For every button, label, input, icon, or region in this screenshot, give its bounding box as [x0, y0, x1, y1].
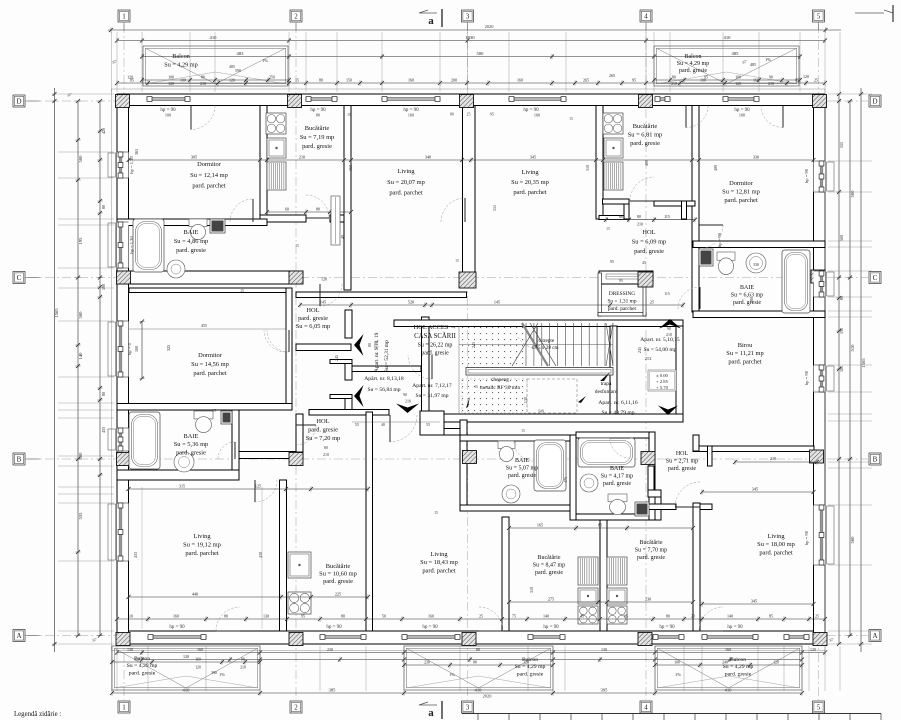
- axis A: [28, 635, 868, 637]
- svg-text:120: 120: [183, 654, 189, 659]
- dim interior dormitor mid-left: [129, 328, 286, 330]
- dim bottom main line: [110, 690, 804, 695]
- svg-text:400: 400: [644, 160, 649, 166]
- wall living-bm/bucatarie: [502, 517, 509, 631]
- svg-text:Su = 19,12 mp: Su = 19,12 mp: [183, 541, 221, 548]
- window top 2: [306, 97, 337, 102]
- svg-text:85: 85: [769, 613, 773, 618]
- svg-text:40: 40: [340, 235, 345, 239]
- dim hol top-right: [604, 217, 697, 222]
- svg-text:pard. parchet: pard. parchet: [192, 183, 226, 190]
- svg-text:pard. parchet: pard. parchet: [193, 370, 227, 377]
- wall hol br step a: [648, 490, 661, 497]
- dim top line3: [140, 54, 802, 59]
- label balcon bottom-right: [723, 657, 754, 677]
- axis C: [28, 277, 868, 279]
- label living bottom-right: [757, 533, 795, 556]
- grid bubble B left: [13, 453, 25, 465]
- svg-text:17,5 x 28 cm: 17,5 x 28 cm: [531, 345, 558, 351]
- window left 4: [108, 503, 129, 561]
- svg-text:chepeng: chepeng: [491, 377, 509, 383]
- svg-text:120: 120: [839, 366, 844, 372]
- svg-text:330: 330: [753, 154, 759, 159]
- dim left line3: [97, 99, 102, 638]
- column bottom x296: [289, 633, 303, 646]
- svg-text:40: 40: [381, 422, 385, 427]
- svg-text:120: 120: [321, 277, 327, 282]
- svg-text:pard. gresie: pard. gresie: [508, 473, 536, 479]
- svg-text:1%: 1%: [765, 57, 771, 62]
- column row C x818: [811, 270, 825, 283]
- column top x819.5: [813, 95, 827, 108]
- extension lines bottom: [112, 646, 841, 691]
- svg-text:Su = 43,79 mp: Su = 43,79 mp: [602, 410, 635, 416]
- svg-text:Su = 4,29 mp: Su = 4,29 mp: [677, 61, 709, 67]
- svg-text:325: 325: [166, 345, 171, 351]
- column bottom x820: [813, 633, 827, 646]
- label balcon top-right: [677, 54, 709, 74]
- wall living/bucatarie bottom-left: [280, 480, 287, 631]
- axis B: [28, 458, 868, 460]
- svg-text:Living: Living: [430, 551, 448, 558]
- svg-text:500: 500: [78, 452, 83, 460]
- living bl extension lines: [142, 487, 262, 629]
- svg-text:433: 433: [133, 552, 138, 558]
- svg-text:Apart. nr. 7,12,17: Apart. nr. 7,12,17: [412, 383, 452, 389]
- grid bubble C left: [13, 272, 25, 284]
- svg-text:25: 25: [467, 113, 471, 117]
- wall stub hol apart8 b: [330, 395, 352, 399]
- window bottom 3: [402, 635, 460, 640]
- svg-text:125: 125: [255, 483, 261, 488]
- svg-text:60: 60: [619, 214, 623, 219]
- door balcony top-right a: [686, 106, 708, 128]
- wall stair shaft bottom: [443, 414, 683, 422]
- 32 deg labels: [66, 59, 835, 643]
- grid bubble 4 top: [640, 10, 652, 22]
- dim left overall: [52, 88, 57, 652]
- svg-text:120: 120: [127, 75, 133, 79]
- svg-text:230: 230: [645, 596, 651, 601]
- dim living br 210: [733, 459, 819, 464]
- label dormitor top-right: [722, 180, 760, 204]
- door baie bm1: [514, 441, 534, 461]
- svg-text:pard. gresie: pard. gresie: [725, 671, 752, 677]
- svg-text:D: D: [872, 98, 877, 106]
- svg-text:410: 410: [725, 687, 733, 692]
- toilet baie upper-left: [189, 219, 207, 240]
- label living bottom-middle: [420, 551, 458, 574]
- wall baie mid-left bottom: [117, 470, 239, 480]
- svg-text:115: 115: [664, 214, 670, 219]
- svg-text:95: 95: [610, 259, 614, 264]
- wall row C left: [117, 271, 303, 284]
- svg-text:+ 2.85: + 2.85: [656, 379, 668, 384]
- wall hol top-right step: [682, 201, 687, 219]
- svg-text:100: 100: [739, 113, 745, 118]
- svg-text:80: 80: [316, 113, 320, 118]
- window bottom 1: [148, 635, 206, 640]
- svg-text:1: 1: [122, 704, 126, 712]
- svg-text:500: 500: [839, 235, 844, 241]
- svg-text:Living: Living: [767, 533, 785, 540]
- svg-text:80: 80: [324, 445, 328, 450]
- window top 4: [509, 97, 566, 102]
- exterior wall bottom: [117, 631, 825, 644]
- column top x466.5: [460, 95, 474, 108]
- axis 2: [295, 24, 297, 700]
- svg-text:80: 80: [473, 660, 477, 664]
- svg-text:Su = 6,05 mp: Su = 6,05 mp: [296, 323, 331, 330]
- svg-text:430: 430: [258, 552, 263, 558]
- label apart 8,13,18: [364, 376, 404, 393]
- svg-text:210: 210: [405, 399, 411, 404]
- svg-text:500: 500: [850, 190, 855, 198]
- svg-text:BAIE: BAIE: [610, 466, 624, 472]
- svg-text:80: 80: [341, 613, 345, 618]
- svg-text:pard. gresie: pard. gresie: [308, 426, 338, 433]
- svg-text:Su = 10,60 mp: Su = 10,60 mp: [319, 571, 357, 578]
- svg-text:Apart. nr. 9,14, 19: Apart. nr. 9,14, 19: [374, 332, 380, 372]
- boiler baie upper-left: [210, 219, 225, 233]
- toilet baie mid-left: [194, 411, 213, 433]
- svg-text:HOL ACCES →: HOL ACCES →: [414, 324, 457, 331]
- svg-text:80: 80: [101, 392, 106, 396]
- svg-text:225: 225: [335, 591, 341, 596]
- grid bubble C right: [869, 272, 881, 284]
- svg-text:80: 80: [450, 113, 454, 117]
- svg-text:pard. parchet: pard. parchet: [608, 306, 637, 312]
- svg-text:Bucătărie: Bucătărie: [305, 125, 330, 132]
- wall hol br step b: [655, 497, 661, 520]
- dim bottom detail chain: [115, 616, 827, 621]
- wall apart right of stairs: [676, 326, 683, 422]
- wall row C right (to column): [599, 271, 653, 284]
- exterior wall top: [117, 94, 825, 106]
- svg-text:95: 95: [301, 613, 305, 618]
- column row B x648: [641, 452, 655, 465]
- section marker a top: [419, 9, 442, 27]
- label baie bm2: [601, 466, 633, 487]
- svg-text:15: 15: [606, 227, 610, 231]
- svg-text:± 0.00: ± 0.00: [656, 373, 668, 378]
- label balcon bottom-left: [127, 656, 158, 676]
- wall baie bm1 top: [460, 435, 570, 441]
- svg-text:45: 45: [642, 260, 646, 265]
- svg-text:pard. parchet: pard. parchet: [759, 549, 793, 556]
- svg-text:100: 100: [674, 660, 680, 664]
- svg-text:160: 160: [101, 284, 106, 290]
- svg-text:pard. gresie: pard. gresie: [535, 570, 563, 576]
- svg-text:pard. parchet: pard. parchet: [185, 550, 219, 557]
- svg-text:275: 275: [548, 596, 554, 601]
- svg-text:210: 210: [373, 342, 378, 348]
- label living top-mid-right: [511, 169, 549, 196]
- svg-text:Dormitor: Dormitor: [197, 161, 222, 168]
- svg-text:130: 130: [601, 647, 607, 652]
- svg-text:25: 25: [814, 77, 818, 82]
- stove kitchen bm1: [578, 606, 598, 624]
- label hol mid-left: [296, 307, 331, 330]
- svg-text:Su = 31,97 mp: Su = 31,97 mp: [416, 393, 449, 399]
- svg-text:120: 120: [195, 666, 201, 670]
- label bucatarie bottom-left: [319, 563, 357, 585]
- extension lines top: [112, 32, 841, 92]
- svg-text:pard. gresie: pard. gresie: [634, 248, 664, 255]
- label bucatarie top-right: [628, 123, 663, 147]
- column row B x296: [289, 453, 303, 466]
- door living bottom-left: [255, 480, 277, 502]
- svg-text:Su = 4,86 mp: Su = 4,86 mp: [174, 238, 209, 245]
- svg-text:500: 500: [78, 311, 83, 319]
- svg-text:485: 485: [732, 51, 740, 56]
- svg-text:Su = 56,84 mp: Su = 56,84 mp: [368, 387, 401, 393]
- svg-text:120: 120: [803, 74, 809, 79]
- svg-text:Su = 20,35 mp: Su = 20,35 mp: [511, 179, 549, 186]
- wall hol br left: [648, 466, 654, 492]
- svg-text:25: 25: [815, 613, 819, 618]
- svg-text:80: 80: [476, 647, 480, 652]
- svg-text:Su = 11,21 mp: Su = 11,21 mp: [726, 350, 763, 357]
- wall dormitor mid-left top: [129, 288, 292, 293]
- svg-text:230: 230: [424, 660, 430, 664]
- svg-text:180: 180: [749, 297, 754, 303]
- svg-text:pard. gresie: pard. gresie: [421, 351, 449, 357]
- roof overhang outline: [112, 89, 826, 651]
- wall hol br right upper: [693, 435, 699, 451]
- wall stair shaft top: [394, 320, 683, 327]
- label baie mid-left: [174, 433, 209, 456]
- labels baie top-right dims: [610, 259, 670, 296]
- stove kitchen top-right: [603, 113, 623, 134]
- window bottom 4: [528, 635, 565, 640]
- svg-text:160: 160: [408, 77, 414, 82]
- axis 5: [818, 24, 820, 700]
- svg-text:520: 520: [408, 299, 414, 304]
- sink kitchen bm2: [607, 588, 627, 604]
- svg-text:4: 4: [644, 13, 648, 21]
- window bottom 5: [653, 635, 684, 640]
- svg-text:55: 55: [426, 422, 430, 427]
- grid bubble 3 top: [462, 10, 474, 22]
- svg-text:pard. parchet: pard. parchet: [389, 190, 423, 197]
- svg-text:2020: 2020: [485, 24, 495, 29]
- svg-text:210: 210: [637, 222, 643, 227]
- svg-text:Living: Living: [193, 533, 211, 540]
- svg-text:310: 310: [585, 165, 590, 171]
- svg-text:140: 140: [543, 613, 549, 618]
- svg-text:210: 210: [299, 154, 305, 159]
- dim top line2: [115, 38, 827, 43]
- door living bottom-right: [675, 482, 700, 507]
- bathtub baie bm1: [534, 440, 566, 491]
- grid bubble 3 bottom: [462, 701, 474, 713]
- entry arrow apart 7: [396, 404, 419, 414]
- dim interior bm: [507, 525, 695, 530]
- column row B x816.5: [810, 450, 824, 463]
- axis 4: [645, 24, 647, 700]
- entry arrow apart 6: [658, 406, 678, 416]
- sink kitchen bm1: [578, 588, 598, 604]
- svg-text:195: 195: [78, 237, 83, 245]
- wall hol bottom-left side: [296, 414, 303, 452]
- stove kitchen bm2: [607, 606, 627, 624]
- grid bubble 1 bottom: [118, 701, 130, 713]
- svg-text:433: 433: [101, 427, 106, 433]
- svg-text:345: 345: [751, 598, 757, 603]
- small arrow stair up: [578, 396, 586, 403]
- extension lines left: [58, 94, 114, 644]
- wall corridor left lower: [345, 398, 352, 411]
- stair landing: [466, 368, 613, 376]
- column bottom x469: [462, 633, 476, 646]
- window top 1: [147, 97, 190, 102]
- svg-text:pard. gresie: pard. gresie: [302, 143, 332, 150]
- svg-text:475: 475: [563, 477, 568, 483]
- wall bucatarie/living bottom-right: [693, 503, 700, 631]
- svg-text:1565: 1565: [861, 358, 866, 368]
- svg-text:345: 345: [752, 486, 758, 491]
- svg-text:245: 245: [637, 347, 642, 353]
- entry arrow apart 8: [354, 385, 364, 407]
- wall bucatarie bottom-left right: [366, 412, 373, 631]
- balcony bottom-right: [655, 646, 802, 690]
- balcony bottom-left: [112, 646, 260, 690]
- small arrow trapa: [600, 372, 610, 381]
- svg-text:hp = 90: hp = 90: [326, 625, 342, 630]
- svg-text:140: 140: [727, 613, 733, 618]
- svg-text:80: 80: [224, 613, 228, 618]
- section marker a bottom: [419, 701, 442, 719]
- svg-text:pard. gresie: pard. gresie: [637, 555, 665, 561]
- wall row B stub mid-left: [239, 452, 303, 459]
- svg-text:60: 60: [285, 206, 289, 211]
- door dormitor mid-left: [264, 330, 286, 352]
- bathtub baie upper-left: [133, 219, 164, 272]
- dim right line1: [836, 92, 841, 646]
- label bucatarie top-left: [300, 125, 335, 150]
- svg-text:Su = 52,31 mp: Su = 52,31 mp: [384, 340, 390, 372]
- svg-text:210: 210: [770, 456, 776, 461]
- svg-text:15: 15: [434, 511, 438, 515]
- wall baie top upper-left: [117, 219, 267, 226]
- svg-text:Su = 18,43 mp: Su = 18,43 mp: [420, 559, 458, 566]
- axis 3: [467, 24, 469, 700]
- svg-text:555: 555: [839, 142, 844, 148]
- wall stair hall upper top: [296, 292, 467, 298]
- svg-text:160: 160: [534, 113, 540, 118]
- svg-text:130: 130: [263, 613, 269, 618]
- wall stair hall left: [422, 317, 430, 411]
- window left 3: [108, 428, 129, 451]
- grid bubble 2 top: [290, 10, 302, 22]
- level box: [648, 370, 676, 391]
- axis D: [28, 100, 868, 102]
- svg-text:Legendă zidărie :: Legendă zidărie :: [14, 711, 61, 718]
- svg-text:410: 410: [724, 35, 732, 40]
- door balcony top-left: [191, 106, 215, 130]
- svg-text:4: 4: [644, 704, 648, 712]
- svg-text:Su = 12,81 mp: Su = 12,81 mp: [722, 189, 760, 196]
- door kitchen top-right: [630, 177, 654, 201]
- wall bucatarie top-right alcove: [603, 199, 630, 204]
- wall step below stairs: [420, 411, 444, 435]
- dressing wardrobe: [606, 274, 640, 279]
- svg-text:hp = 90: hp = 90: [804, 530, 809, 545]
- svg-text:120: 120: [168, 82, 174, 86]
- wall stub hol apart8 a: [330, 360, 352, 364]
- svg-text:160: 160: [173, 613, 179, 618]
- wall bucatarie top-right step: [624, 199, 629, 219]
- svg-text:130: 130: [839, 328, 844, 334]
- label baie top-right: [731, 285, 763, 306]
- label living top-mid-left: [387, 168, 425, 197]
- dim balcony bottom-left inner: [110, 659, 262, 664]
- wall baie top-right top: [693, 241, 825, 248]
- grid bubble 2 bottom: [290, 701, 302, 713]
- svg-text:120: 120: [773, 660, 779, 664]
- svg-text:50: 50: [382, 613, 386, 618]
- svg-text:10: 10: [129, 613, 133, 618]
- svg-text:Su = 8,47 mp: Su = 8,47 mp: [533, 562, 565, 568]
- grid bubble B right: [869, 453, 881, 465]
- svg-text:1%: 1%: [449, 672, 455, 677]
- svg-text:20: 20: [691, 613, 695, 618]
- svg-text:+ 5.70: + 5.70: [656, 385, 668, 390]
- balcony top-left: [143, 46, 288, 86]
- svg-text:Apart. nr. 5,10,15: Apart. nr. 5,10,15: [640, 337, 680, 343]
- svg-text:510: 510: [850, 344, 855, 352]
- toilet baie bm2: [608, 494, 627, 515]
- svg-text:160: 160: [428, 613, 434, 618]
- wall dormitor mid-left bottom: [117, 404, 292, 411]
- svg-text:Su = 7,20 mp: Su = 7,20 mp: [306, 435, 341, 442]
- svg-text:210: 210: [240, 666, 246, 670]
- svg-text:Bucătărie: Bucătărie: [640, 540, 663, 546]
- boiler baie bm2: [635, 502, 649, 516]
- window right 2: [814, 271, 835, 297]
- svg-text:590: 590: [235, 68, 241, 73]
- column row C x296: [289, 271, 303, 284]
- svg-text:210: 210: [200, 82, 206, 86]
- svg-text:500: 500: [477, 51, 485, 56]
- svg-text:485: 485: [750, 62, 756, 67]
- svg-text:pard. gresie: pard. gresie: [298, 315, 328, 322]
- svg-text:2: 2: [294, 704, 298, 712]
- grid bubble D left: [13, 95, 25, 107]
- svg-text:240: 240: [722, 660, 728, 664]
- grid bubble A right: [869, 630, 881, 642]
- svg-text:hp = 90: hp = 90: [727, 625, 743, 630]
- stair diag cross right: [459, 323, 613, 414]
- svg-text:245: 245: [471, 342, 476, 348]
- svg-text:265: 265: [583, 77, 589, 82]
- svg-text:Bucătărie: Bucătărie: [538, 555, 561, 561]
- door baie top-right: [678, 287, 700, 309]
- label 16 trepte: [531, 338, 558, 351]
- svg-text:Balcon: Balcon: [685, 54, 702, 60]
- svg-text:340: 340: [425, 154, 431, 159]
- svg-text:160: 160: [408, 113, 414, 118]
- sink baie mid-left: [174, 452, 194, 472]
- dim interior bottom kitchens: [127, 594, 371, 599]
- appliance kitchen bm1: [578, 557, 598, 585]
- radiator living top-left wall: [331, 196, 340, 245]
- svg-text:100: 100: [134, 346, 139, 352]
- svg-text:3: 3: [466, 13, 470, 21]
- svg-text:15: 15: [521, 429, 525, 433]
- wall dressing right: [643, 273, 646, 316]
